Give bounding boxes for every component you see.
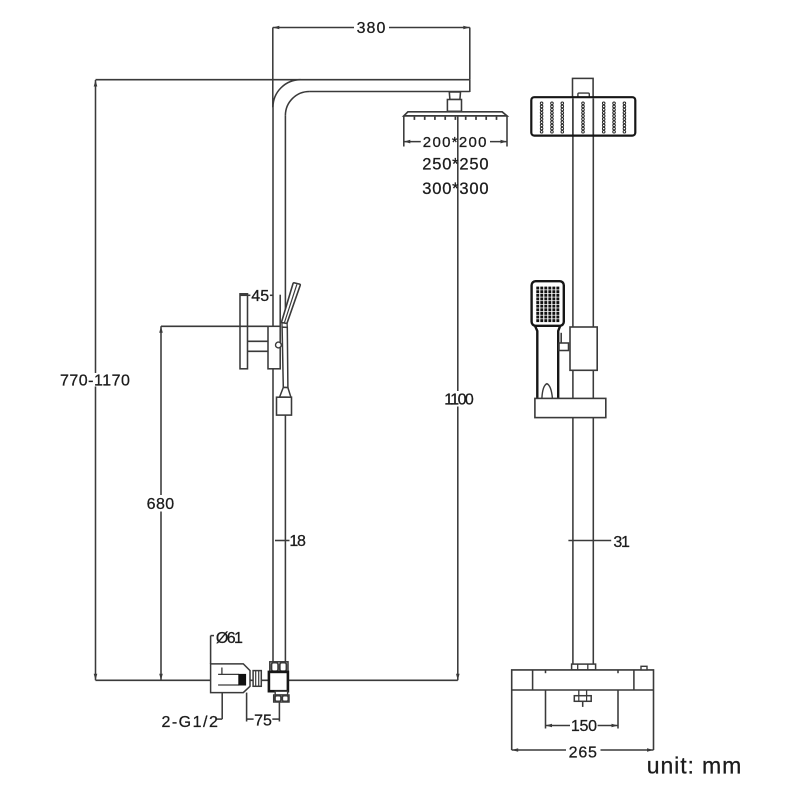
- dim 75 right extension: [278, 702, 280, 722]
- slide bar right edge: [592, 98, 594, 664]
- svg-text:18: 18: [289, 533, 306, 550]
- bar bottom collar: [572, 664, 596, 670]
- hand shower face line: [284, 284, 297, 323]
- bolt stem left: [578, 690, 580, 696]
- hand shower head side view: [281, 283, 300, 324]
- extension line valve centerline: [96, 679, 458, 681]
- valve left end cap line: [532, 670, 534, 690]
- valve lower neck: [275, 691, 287, 695]
- dim 380 left extension line: [272, 28, 274, 108]
- svg-text:150: 150: [571, 718, 597, 735]
- shower arm top edge: [301, 79, 470, 81]
- bolt facet 1: [578, 696, 580, 702]
- extension line bracket to dim 680: [161, 325, 268, 327]
- dim 1100 bottom arrow: [456, 674, 460, 681]
- hand shower handle left edge: [535, 326, 537, 399]
- dim 770-1170 line upper segment: [95, 80, 97, 373]
- dim 680 line lower segment: [160, 512, 162, 681]
- valve stem ring: [253, 671, 261, 687]
- dim 1100 center line lower segment: [457, 407, 459, 681]
- svg-text:Ø61: Ø61: [216, 630, 243, 647]
- valve top band bottom line: [512, 689, 654, 691]
- soap shelf front view: [535, 398, 606, 417]
- handle inlet arch: [542, 384, 553, 398]
- bar through head right: [592, 98, 594, 134]
- svg-text:680: 680: [147, 496, 175, 513]
- dim 200*200 right arrow: [501, 140, 508, 144]
- svg-text:1100: 1100: [444, 391, 474, 408]
- valve tee body: [269, 672, 288, 691]
- bar width dash: [568, 540, 611, 542]
- valve slot top: [218, 673, 239, 675]
- dim 150 line left segment: [546, 725, 571, 727]
- svg-text:75: 75: [254, 712, 272, 729]
- stem ring facet 1: [255, 671, 257, 687]
- shower arm bottom edge: [309, 91, 469, 93]
- riser pipe left edge: [272, 107, 274, 662]
- hand shower pivot: [282, 323, 287, 328]
- head connector upper block: [449, 92, 460, 100]
- hand shower handle right edge: [558, 326, 560, 399]
- dim 45 line left segment: [240, 294, 250, 296]
- lower hex facet right: [282, 696, 288, 702]
- dim 75 left extension: [246, 693, 248, 722]
- bolt facet 2: [586, 696, 588, 702]
- dim 150 right extension: [617, 690, 619, 729]
- holder clip block: [559, 343, 569, 351]
- inlet tick left: [545, 670, 547, 673]
- dim 680 line upper segment: [160, 326, 162, 495]
- svg-text:300*300: 300*300: [422, 180, 489, 198]
- lower hex nut outline: [274, 695, 289, 702]
- bolt tail line: [582, 701, 584, 707]
- dim 75 line left segment: [247, 718, 254, 720]
- riser pipe outer bend: [273, 80, 301, 108]
- dim 150 right arrow: [612, 724, 619, 728]
- thermostat valve body front view: [512, 670, 654, 750]
- spray nozzle ring columns: [540, 102, 625, 133]
- dim 150 left arrow: [546, 724, 553, 728]
- valve bottom edge / dim 265 left segment: [512, 749, 566, 751]
- dim 380 right extension line: [469, 28, 471, 80]
- svg-text:200*200: 200*200: [423, 134, 488, 151]
- slider holder block front view: [570, 327, 597, 370]
- dim 680 top arrow: [159, 326, 163, 333]
- dim 380 line right segment: [389, 27, 470, 29]
- svg-text:770-1170: 770-1170: [60, 373, 130, 390]
- svg-text:250*250: 250*250: [422, 155, 489, 173]
- dim 380 line left segment: [273, 27, 354, 29]
- slider block: [268, 326, 280, 369]
- collar facet 1: [577, 664, 579, 670]
- dia 61 leader line: [210, 636, 212, 664]
- connector inner notch: [578, 93, 589, 98]
- dim 680 bottom arrow: [159, 674, 163, 681]
- head connector flange: [447, 100, 461, 112]
- hand shower head front view: [532, 281, 564, 326]
- dim 770-1170 bottom arrow: [94, 674, 98, 681]
- hose connector block: [277, 397, 292, 415]
- collar facet 2: [587, 664, 589, 670]
- dim 45 line right segment: [270, 294, 273, 296]
- stem ring facet 2: [258, 671, 260, 687]
- dim 200*200 right extension: [506, 116, 508, 147]
- svg-text:45: 45: [251, 288, 269, 305]
- overhead shower head front view: [531, 97, 635, 135]
- spray face grid: [536, 287, 559, 322]
- valve slot bottom: [218, 684, 239, 686]
- 2-G1/2 leader foot: [216, 718, 222, 720]
- valve top knob: [641, 666, 647, 670]
- holder clip stem: [560, 333, 562, 350]
- pipe width dash: [275, 540, 290, 542]
- pipe union nut outline: [270, 662, 288, 672]
- svg-text:unit: mm: unit: mm: [647, 753, 742, 779]
- dim 380 left arrow: [273, 26, 280, 30]
- overhead shower plate side view: [404, 112, 507, 116]
- valve body tick: [221, 668, 223, 675]
- svg-text:2-G1/2: 2-G1/2: [161, 714, 219, 731]
- dim 200*200 left arrow: [404, 140, 411, 144]
- dim 770-1170 top arrow: [94, 80, 98, 87]
- nozzle tick: [413, 117, 415, 120]
- lower hex facet left: [275, 696, 281, 702]
- dim 200*200 line right segment: [490, 141, 507, 143]
- hand shower hose cone: [280, 387, 291, 397]
- dim 200*200 left extension: [403, 116, 405, 147]
- dim 265 right arrow: [647, 748, 654, 752]
- bolt stem right: [586, 690, 588, 696]
- dim 265 left arrow: [512, 748, 519, 752]
- svg-text:31: 31: [613, 534, 630, 551]
- dim 150 left extension: [545, 690, 547, 729]
- dim 1100 center line upper segment: [457, 92, 459, 391]
- svg-text:380: 380: [357, 20, 387, 37]
- dim 200*200 line left segment: [404, 141, 421, 143]
- valve right end cap line: [633, 670, 635, 690]
- svg-text:265: 265: [569, 745, 598, 762]
- dim 75 line right segment: [272, 718, 279, 720]
- dim 45 right extension line: [279, 295, 281, 327]
- top connector front view: [573, 78, 594, 98]
- dim 380 right arrow: [463, 26, 470, 30]
- dia 61 leader tick: [211, 635, 214, 637]
- valve slot dark insert: [239, 674, 246, 685]
- dim 1100 top arrow: [456, 92, 460, 99]
- union nut facet right: [280, 663, 287, 672]
- slide bar left edge: [572, 98, 574, 664]
- bolt hex: [574, 696, 591, 702]
- union nut facet left: [272, 663, 279, 672]
- wall bracket plate: [240, 294, 248, 369]
- dim 150 line right segment: [598, 725, 618, 727]
- inlet tick right: [617, 670, 619, 673]
- extension line arm top to wall dim: [96, 79, 301, 81]
- hand shower handle side view: [282, 327, 288, 388]
- bracket arm bottom: [248, 350, 269, 352]
- riser pipe right edge: [284, 115, 286, 662]
- shower arm right end edge: [469, 80, 471, 92]
- bracket arm top: [248, 340, 269, 342]
- dim 770-1170 line lower segment: [95, 387, 97, 681]
- bar through head left: [572, 98, 574, 134]
- valve body side view: [211, 664, 250, 693]
- 2-G1/2 leader line: [221, 693, 223, 720]
- valve bottom edge / dim 265 right segment: [601, 749, 654, 751]
- riser pipe inner bend: [285, 92, 309, 116]
